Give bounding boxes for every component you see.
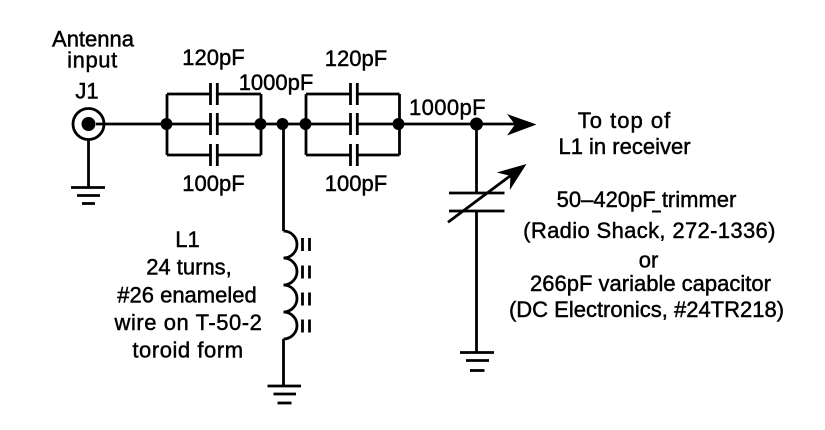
svg-text:1000pF: 1000pF — [239, 70, 314, 95]
svg-text:#26 enameled: #26 enameled — [117, 283, 256, 308]
svg-text:50–420pF trimmer: 50–420pF trimmer — [557, 187, 737, 212]
ground (L1) — [268, 386, 302, 403]
node C (L1 tap) — [277, 118, 289, 130]
wire J1 to ground — [87, 139, 90, 188]
svg-text:(DC Electronics, #24TR218): (DC Electronics, #24TR218) — [509, 297, 784, 322]
capacitor 120pF (bank 1 top) — [211, 83, 218, 105]
wire bank2 right rail — [398, 94, 401, 155]
node F (output junction) — [470, 118, 483, 131]
wire bank1 middle branch — [167, 123, 261, 126]
capacitor 1000pF (bank 2 middle) — [351, 113, 358, 135]
wire J1 to node A — [96, 123, 167, 126]
arrow to receiver — [507, 114, 537, 136]
wire bank2 middle branch — [306, 123, 400, 126]
node E (bank2 right) — [393, 118, 405, 130]
wire bank2 bottom branch — [306, 154, 400, 157]
svg-text:J1: J1 — [75, 79, 98, 104]
node A (bank1 left) — [161, 118, 173, 130]
node D (bank2 left) — [300, 118, 312, 130]
svg-text:input: input — [67, 48, 118, 73]
svg-text:266pF variable capacitor: 266pF variable capacitor — [530, 271, 771, 296]
variable capacitor (trimmer) — [448, 164, 527, 222]
label L1 coil description — [114, 227, 263, 363]
svg-text:(Radio Shack, 272-1336): (Radio Shack, 272-1336) — [523, 218, 776, 243]
svg-text:120pF: 120pF — [182, 45, 244, 70]
wire L1 to ground — [282, 339, 285, 386]
capacitor 120pF (bank 2 top) — [351, 83, 358, 105]
label trimmer description — [652, 211, 661, 213]
label Antenna input — [52, 27, 135, 73]
svg-text:1000pF: 1000pF — [409, 95, 486, 120]
svg-text:wire on T-50-2: wire on T-50-2 — [114, 310, 263, 335]
svg-text:or: or — [639, 248, 659, 273]
svg-text:L1: L1 — [175, 227, 199, 252]
wire bank2 top branch — [306, 93, 400, 96]
wire node B to node D — [261, 123, 306, 126]
capacitor 100pF (bank 2 bottom) — [351, 144, 358, 166]
node B (bank1 right) — [255, 118, 267, 130]
connector J1 — [73, 109, 104, 140]
wire trimmer to ground — [475, 211, 478, 353]
capacitor 100pF (bank 1 bottom) — [211, 144, 218, 166]
wire bank1 top branch — [167, 93, 261, 96]
wire bank1 right rail — [260, 94, 263, 155]
svg-text:toroid form: toroid form — [132, 338, 243, 363]
wire bank1 left rail — [166, 94, 169, 155]
ground (J1) — [71, 188, 105, 204]
svg-text:100pF: 100pF — [325, 171, 387, 196]
svg-text:24 turns,: 24 turns, — [146, 255, 232, 280]
svg-text:To top of: To top of — [578, 108, 671, 133]
ground (trimmer) — [460, 353, 494, 371]
svg-text:L1 in receiver: L1 in receiver — [558, 134, 690, 159]
wire node F down to trimmer — [475, 124, 478, 193]
wire node E to node F — [400, 123, 477, 126]
wire bank2 left rail — [305, 94, 308, 155]
wire node C down to L1 — [282, 124, 285, 231]
wire bank1 bottom branch — [167, 154, 261, 157]
svg-text:100pF: 100pF — [182, 171, 244, 196]
capacitor 1000pF (bank 1 middle) — [211, 113, 218, 135]
inductor L1 — [284, 231, 310, 339]
label To top of L1 in receiver — [558, 108, 690, 159]
svg-text:120pF: 120pF — [325, 46, 387, 71]
wire output arrow shaft — [477, 123, 517, 126]
